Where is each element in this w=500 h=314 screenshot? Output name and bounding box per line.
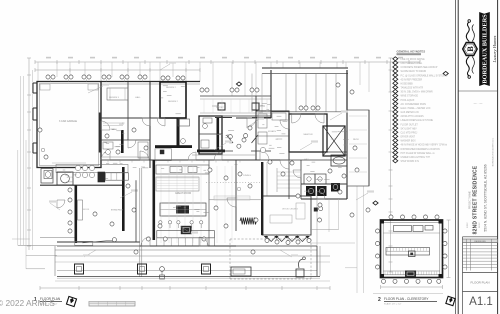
svg-text:2: 2 — [378, 297, 381, 303]
svg-text:LNDRY: LNDRY — [304, 191, 312, 193]
svg-text:FLOOR PLAN: FLOOR PLAN — [470, 281, 489, 285]
svg-text:48 IN RANGE W HOOD ABV VERIFY: 48 IN RANGE W HOOD ABV VERIFY CFM bb — [401, 144, 448, 147]
svg-text:UNDER CAB LIGHTING TYP: UNDER CAB LIGHTING TYP — [401, 156, 431, 159]
title block: tiny company print — [492, 137, 495, 166]
symbol: zigzag W — [240, 218, 257, 225]
svg-text:MASTER: MASTER — [303, 133, 313, 136]
svg-text:BREAKFAST: BREAKFAST — [111, 209, 124, 212]
clerestory plan: outer walls — [380, 220, 443, 279]
door arcs: great room to patio — [141, 237, 208, 246]
svg-text:BORDEAUX BUILDERS LLC: BORDEAUX BUILDERS LLC — [492, 137, 495, 166]
wall: bath block center — [197, 116, 225, 154]
fixture: laundry appliances dark — [306, 183, 340, 196]
room label smudges — [67, 87, 360, 211]
svg-text:B: B — [466, 46, 475, 52]
title block: sheet number A1.1 — [469, 296, 493, 308]
patio: column bases — [75, 264, 211, 274]
clerestory plan: dimension lines — [373, 220, 451, 293]
svg-text:82ND STREET RESIDENCE: 82ND STREET RESIDENCE — [473, 165, 479, 234]
wall: bedroom 2 thick walls — [160, 82, 186, 118]
svg-text:PROJECT NAME: PROJECT NAME — [469, 191, 472, 209]
svg-text:GAS METER LOC: GAS METER LOC — [401, 111, 420, 114]
fixture: kitchen south counter with range and stools — [157, 226, 215, 246]
dimension line: right vertical strings — [357, 58, 393, 293]
wall: bath2 dark bars — [155, 118, 192, 161]
svg-text:DRYER VENT: DRYER VENT — [401, 137, 416, 139]
svg-text:— · —: — · — — [474, 101, 483, 105]
watermark copyright ARMLS — [0, 298, 55, 308]
keynote circles on plan — [38, 75, 370, 254]
dotted column grid line great room — [206, 162, 267, 200]
extension lines: top verticals — [38, 62, 390, 96]
svg-text:BATH: BATH — [111, 128, 117, 131]
dimension line: bottom strings — [40, 281, 330, 290]
svg-text:5504 N. 82ND ST, SCOTTSDALE, A: 5504 N. 82ND ST, SCOTTSDALE, AZ 85266 — [484, 164, 488, 231]
title block: rotated date stamps above table — [467, 222, 481, 228]
wall: hallway south line — [101, 155, 256, 157]
title block: project name rotated — [469, 164, 488, 234]
dimension line: top overall string — [35, 57, 420, 64]
svg-text:HOSE BIBB: HOSE BIBB — [401, 84, 414, 86]
interior fine details: garage small items — [40, 84, 98, 163]
title block: revision table — [463, 239, 498, 271]
svg-text:WOOD CEILING: WOOD CEILING — [282, 209, 298, 211]
svg-text:BEDRM 2: BEDRM 2 — [168, 101, 179, 103]
clerestory plan: perimeter keynote circles — [375, 215, 447, 283]
leader note lines — [49, 61, 374, 257]
interior fine details: kitchen tile lines — [156, 177, 199, 191]
svg-text:ENTRY: ENTRY — [216, 107, 224, 109]
wall: garage inner face — [39, 84, 99, 166]
door arcs — [57, 118, 301, 208]
title block: small center mark — [474, 101, 483, 105]
fixture: bench along wall — [78, 200, 83, 220]
svg-text:LINEAR FIREPLACE W STONE: LINEAR FIREPLACE W STONE — [401, 119, 434, 122]
svg-text:30 IN. DBL OVEN + MW DRWR: 30 IN. DBL OVEN + MW DRWR — [401, 92, 433, 94]
dimension line: top second string — [35, 68, 200, 72]
dimension line: left vertical strings — [27, 58, 31, 250]
wall: bedroom block north row — [101, 82, 256, 169]
keynote diamond: patio right — [373, 201, 378, 205]
title block: section divider lines — [458, 91, 497, 314]
svg-text:HALL: HALL — [135, 96, 141, 99]
svg-text:01/22: 01/22 — [479, 222, 481, 228]
svg-text:SLOPE DECK TO DRAIN: SLOPE DECK TO DRAIN — [401, 70, 427, 73]
wall: side patio right wing — [347, 110, 369, 186]
roof lines: clerestory above great room — [252, 68, 348, 112]
site lines: right yard — [310, 199, 357, 268]
svg-text:REVISIONS: REVISIONS — [474, 241, 486, 243]
patio: bottom terrace band — [55, 246, 330, 278]
leader diagonal at patio — [75, 240, 116, 246]
svg-text:SKYLIGHT ABV: SKYLIGHT ABV — [401, 127, 418, 130]
closet shelves his-hers — [277, 168, 300, 192]
wall: kitchen thick west wall — [122, 160, 155, 240]
svg-text:SCALE: 1/4" = 1'-0": SCALE: 1/4" = 1'-0" — [384, 303, 402, 306]
logo: Bordeaux Builders rotated — [463, 12, 497, 86]
svg-text:CMU SCREEN WALL: CMU SCREEN WALL — [401, 62, 424, 65]
wall: garland south edge of sitting room — [264, 236, 310, 242]
svg-text:DISHWASHER DRAWERS LOCATION: DISHWASHER DRAWERS LOCATION — [401, 148, 441, 151]
sitting room furniture — [270, 203, 305, 223]
svg-text:STEP DOWN 6 IN: STEP DOWN 6 IN — [401, 161, 420, 163]
interior fine details: master bath fixtures — [258, 113, 286, 153]
patio: outdoor kitchen rect — [231, 267, 251, 276]
wall: great room east and south — [140, 160, 236, 246]
svg-text:42 IN REF FREEZER: 42 IN REF FREEZER — [401, 79, 423, 81]
svg-text:CLG MTD PROJ: CLG MTD PROJ — [401, 132, 418, 134]
keynote diamond: entry — [236, 82, 241, 86]
svg-text:NOOK: NOOK — [83, 209, 90, 211]
wall: foyer — [236, 70, 271, 160]
svg-text:03/22: 03/22 — [467, 222, 469, 228]
wall: laundry walls — [301, 160, 347, 199]
svg-text:GREAT ROOM: GREAT ROOM — [175, 192, 191, 195]
keynote circles kitchen counter — [146, 237, 206, 241]
wall: left bath dark bar — [99, 113, 124, 154]
svg-text:CLO: CLO — [331, 139, 336, 141]
wall: left wing below garage — [37, 168, 140, 244]
clerestory plan: interior skylight rects — [383, 226, 440, 234]
svg-text:WINE STORAGE: WINE STORAGE — [401, 95, 419, 98]
wall: hall east — [256, 70, 347, 199]
keynote legend items — [393, 57, 448, 163]
label: 1 FLOOR PLAN — [34, 297, 62, 306]
svg-text:POT FILLER AT RANGE WALL xx: POT FILLER AT RANGE WALL xx — [401, 152, 436, 155]
door arcs: master double doors — [292, 114, 324, 123]
label: 2 FLOOR PLAN - CLERESTORY — [378, 297, 437, 306]
svg-text:KITCH: KITCH — [67, 177, 74, 179]
interior fine details: entry paving — [204, 99, 267, 113]
wall: kitchen east double line — [140, 168, 142, 277]
keynote circle leaders — [51, 79, 143, 82]
svg-text:GENERAL KEYNOTES: GENERAL KEYNOTES — [397, 50, 426, 54]
wall: master bath — [256, 111, 289, 160]
svg-text:LINE OF ROOF ABOVE: LINE OF ROOF ABOVE — [401, 58, 426, 61]
room label: sitting room — [209, 162, 311, 235]
svg-text:FLOOR OUTLET: FLOOR OUTLET — [401, 124, 419, 126]
clerestory plan: bottom hatch and fixture — [383, 271, 440, 278]
svg-text:PATIO: PATIO — [353, 138, 360, 141]
interior fine details: bath 1 fixtures — [103, 142, 148, 158]
fixture: kitchen island — [160, 203, 206, 216]
svg-text:BORDEAUX BUILDERS: BORDEAUX BUILDERS — [482, 14, 489, 84]
fixture: bath fixtures center block — [201, 118, 212, 148]
fixture: kitchen north counter — [156, 165, 209, 174]
svg-text:CONCRETE PAVERS SEE LNDSCP: CONCRETE PAVERS SEE LNDSCP — [401, 66, 438, 69]
svg-text:BEDRM 2: BEDRM 2 — [166, 87, 177, 89]
wall: foyer funnel — [215, 118, 271, 152]
site lines: left yard horizontals — [12, 239, 57, 269]
interior fine details: bedroom closets — [103, 88, 128, 126]
svg-text:BEDRM 3: BEDRM 3 — [109, 97, 120, 99]
svg-text:P.C. @ GLASS OPERABLE WALL SYS: P.C. @ GLASS OPERABLE WALL SYSTEM dr — [401, 74, 448, 77]
svg-text:HALL: HALL — [304, 158, 310, 161]
graphic scale bar — [89, 302, 135, 307]
svg-text:22X30 ATTIC ACCESS: 22X30 ATTIC ACCESS — [401, 115, 425, 118]
great room floor grain lines — [161, 166, 232, 243]
svg-text:Luxury Homes: Luxury Homes — [492, 35, 497, 63]
keynote circles along west wall — [68, 188, 72, 233]
site lines: left yard verticals — [18, 70, 33, 269]
fixture: master tub — [331, 155, 347, 166]
title block: border lines — [456, 0, 498, 314]
fixture: water heater closet — [41, 169, 53, 184]
svg-text:ELEC. PANEL + METER LOC: ELEC. PANEL + METER LOC — [401, 107, 431, 110]
north arrow: floor plan — [66, 296, 76, 306]
fixture: pool equip dark rect — [314, 207, 323, 223]
fixture noise: small detail strokes — [63, 86, 349, 213]
keynote diamond: near title strip — [443, 71, 448, 75]
north arrow: clerestory — [446, 296, 455, 305]
interior fine details: hallway marks — [108, 161, 240, 163]
fixture: island stools — [159, 221, 203, 228]
fixture: kitchen nook counters and cooktop — [56, 165, 128, 186]
wall: master bedroom — [289, 114, 327, 152]
svg-text:DINING: DINING — [243, 175, 251, 177]
svg-text:FLOOR PLAN - CLERESTORY: FLOOR PLAN - CLERESTORY — [384, 297, 429, 301]
wall: entry portico — [200, 96, 271, 116]
svg-text:M BATH: M BATH — [268, 130, 277, 133]
title block: sheet title FLOOR PLAN — [470, 281, 489, 285]
svg-text:POOL EQUIP.: POOL EQUIP. — [401, 100, 416, 102]
clerestory plan: center beam band — [386, 248, 430, 257]
interior fine details: breakfast counter row — [105, 173, 136, 242]
svg-text:A/C CONDENSER PADS: A/C CONDENSER PADS — [401, 103, 427, 106]
fixture: toilet rooms — [304, 174, 326, 184]
interior fine details: great room rug — [214, 196, 250, 200]
wall: garage perimeter — [33, 82, 101, 168]
svg-text:A1.1: A1.1 — [469, 296, 493, 308]
fixture: patio lamp — [160, 267, 165, 279]
svg-text:WASHER BOX: WASHER BOX — [401, 140, 417, 143]
wall: closet with X brace — [323, 126, 345, 156]
keynote legend header — [397, 50, 426, 55]
svg-text:TANKLESS WTR HTR: TANKLESS WTR HTR — [401, 87, 424, 90]
door arcs extra — [128, 118, 325, 207]
patio: dashed roof overhang with bbq — [230, 239, 311, 279]
svg-text:© 2022 ARMLS: © 2022 ARMLS — [0, 298, 55, 308]
svg-text:3 CAR GARAGE: 3 CAR GARAGE — [59, 120, 77, 123]
interior fine details: side patio hatch — [349, 116, 367, 172]
